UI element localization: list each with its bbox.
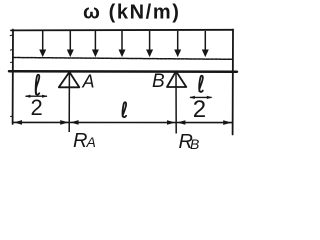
svg-text:B: B <box>152 71 165 92</box>
svg-text:A: A <box>86 134 96 150</box>
svg-text:2: 2 <box>31 95 43 120</box>
svg-text:R: R <box>73 130 87 152</box>
svg-text:B: B <box>190 136 199 152</box>
svg-text:2: 2 <box>193 96 206 123</box>
svg-text:A: A <box>82 71 95 91</box>
svg-text:ω (kN/m): ω (kN/m) <box>83 1 180 23</box>
